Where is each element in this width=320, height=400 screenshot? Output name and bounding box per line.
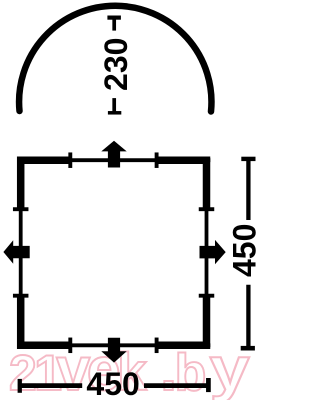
svg-text:450: 450 [226,224,261,277]
svg-text:230: 230 [98,38,134,91]
svg-text:450: 450 [86,366,139,400]
